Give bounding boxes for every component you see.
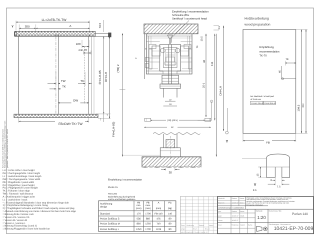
svg-text:Grün: Grün xyxy=(240,202,244,205)
svg-text:Y: Y xyxy=(254,183,257,187)
svg-text:536: 536 xyxy=(137,218,142,221)
svg-text:(mm): (mm) xyxy=(156,207,162,210)
svg-text:DW = Durchgangsweite / clear w: DW = Durchgangsweite / clear width xyxy=(3,178,41,181)
svg-text:350: 350 xyxy=(25,25,30,29)
svg-text:Perlan 140: Perlan 140 xyxy=(292,212,308,216)
svg-text:Empfehlung: Empfehlung xyxy=(259,46,274,49)
svg-text:FB = Flügelbreite / panel widt: FB = Flügelbreite / panel width xyxy=(3,181,35,184)
svg-text:Empfehlung / recommendation: Empfehlung / recommendation xyxy=(108,179,143,182)
svg-text:FH=LH-85: FH=LH-85 xyxy=(98,70,102,84)
svg-text:(mm): (mm) xyxy=(145,207,151,210)
svg-text:1700: 1700 xyxy=(145,228,151,231)
svg-text:Urheberschutz / confidential: Urheberschutz / confidential xyxy=(218,207,244,210)
svg-text:gestattet / refer to protectio: gestattet / refer to protection notice I… xyxy=(6,129,9,168)
svg-text:(kg): (kg) xyxy=(168,207,172,210)
svg-text:2.5: 2.5 xyxy=(218,25,221,29)
svg-text:(30) (43.5): (30) (43.5) xyxy=(167,119,177,122)
svg-text:LL = Laufschienenlänge / track: LL = Laufschienenlänge / track length xyxy=(3,175,42,178)
svg-text:Datum: Datum xyxy=(199,224,205,227)
svg-text:Zust.: Zust. xyxy=(181,224,185,227)
svg-text:N5 RT 10421-EP-70-009 / 16.03.: N5 RT 10421-EP-70-009 / 16.03.17 xyxy=(181,231,208,234)
svg-text:= Version M / version M: = Version M / version M xyxy=(3,219,27,222)
svg-text:gez.: gez. xyxy=(218,211,222,213)
svg-text:wood preparation: wood preparation xyxy=(245,22,271,26)
svg-text:1:1: 1:1 xyxy=(253,188,257,192)
svg-text:10421-EP-70-009: 10421-EP-70-009 xyxy=(274,226,314,232)
svg-text:30: 30 xyxy=(169,170,173,174)
svg-text:FB-140: FB-140 xyxy=(155,212,164,215)
svg-text:A = Auslösepunkt / trigger po: A = Auslösepunkt / trigger point xyxy=(3,195,36,198)
svg-text:104.5: 104.5 xyxy=(297,104,300,111)
svg-text:Gewicht: Gewicht xyxy=(218,197,225,200)
svg-text:Perlan SoftStop L: Perlan SoftStop L xyxy=(100,228,120,231)
svg-text:TW: TW xyxy=(61,79,66,83)
svg-text:7: 7 xyxy=(146,67,147,70)
svg-text:min.: min. xyxy=(137,204,142,207)
svg-text:min.70: min.70 xyxy=(79,48,88,52)
svg-text:TK: TK xyxy=(62,85,66,89)
svg-text:1) = Empfohlene Befestigung /: 1) = Empfohlene Befestigung / recom. fix… xyxy=(3,204,49,207)
svg-text:140: 140 xyxy=(168,212,173,215)
svg-text:Name: Name xyxy=(240,197,245,200)
svg-text:= Abstand erste Bohrung von Ka: = Abstand erste Bohrung von Kante / dist… xyxy=(3,210,77,213)
svg-text:(mm): (mm) xyxy=(136,207,142,210)
svg-text:1250: 1250 xyxy=(145,223,151,226)
svg-text:LL=2xFB-TK-TW: LL=2xFB-TK-TW xyxy=(42,18,68,22)
svg-text:TK = Türkante / door edge: TK = Türkante / door edge xyxy=(3,190,31,193)
svg-text:Holzbearbeitung: Holzbearbeitung xyxy=(245,16,269,20)
svg-text:FH=(LH-85): FH=(LH-85) xyxy=(112,122,116,137)
svg-text:LH = Lichte Höhe / clear heigh: LH = Lichte Höhe / clear height xyxy=(3,169,35,172)
svg-text:DW: DW xyxy=(73,99,78,103)
svg-text:Name: Name xyxy=(240,210,245,213)
svg-text:30: 30 xyxy=(145,47,147,50)
svg-text:TW = Türwand / wall distance: TW = Türwand / wall distance xyxy=(3,193,34,196)
svg-text:= Version XS / version XS: = Version XS / version XS xyxy=(3,216,30,219)
svg-text:A: A xyxy=(69,24,71,28)
svg-text:Senkkopf / countersunk head: Senkkopf / countersunk head xyxy=(172,18,207,21)
svg-text:Maßstab: Maßstab xyxy=(256,210,263,213)
svg-text:= Bohrung Ende / letztes Loch: = Bohrung Ende / letztes Loch xyxy=(3,213,35,216)
svg-text:12.05.17: 12.05.17 xyxy=(232,202,239,205)
svg-text:TK: TK xyxy=(285,58,289,61)
svg-text:TK-70: TK-70 xyxy=(259,55,267,58)
svg-text:PH-B 4.5: PH-B 4.5 xyxy=(108,186,118,189)
svg-text:* = Türanschlagmaß Bandseite: * = Türanschlagmaß Bandseite / door stop… xyxy=(3,201,70,204)
svg-text:FB=1200: FB=1200 xyxy=(108,193,118,196)
svg-text:7.5: 7.5 xyxy=(277,185,281,188)
svg-text:1:20: 1:20 xyxy=(257,215,266,220)
svg-text:1700: 1700 xyxy=(145,212,151,215)
svg-text:Blatt 1/1: Blatt 1/1 xyxy=(218,202,224,205)
svg-text:78.5: 78.5 xyxy=(98,22,102,28)
svg-text:= Bohrung Türanschlag 1) und 2: = Bohrung Türanschlag 1) und 2) xyxy=(3,225,37,228)
svg-text:Perlan SoftStop M: Perlan SoftStop M xyxy=(100,223,120,226)
svg-text:FG: FG xyxy=(168,202,171,205)
svg-text:DH = Durchgangshöhe / door hei: DH = Durchgangshöhe / door height xyxy=(3,172,41,175)
svg-text:FH: FH xyxy=(302,104,305,108)
svg-text:LL = Laufschiene / track: LL = Laufschiene / track xyxy=(3,198,29,201)
svg-text:25-1: 25-1 xyxy=(202,82,205,88)
svg-text:860: 860 xyxy=(146,218,151,221)
svg-text:(TB) 2: (TB) 2 xyxy=(116,64,120,72)
svg-text:Norm: Norm xyxy=(218,219,223,222)
svg-text:gepr.: gepr. xyxy=(218,215,222,217)
svg-text:FH = Flügelhöhe / panel height: FH = Flügelhöhe / panel height xyxy=(3,184,35,187)
svg-text:Urspr.: Urspr. xyxy=(181,228,186,231)
svg-text:Bodenführung durchgehend: Bodenführung durchgehend xyxy=(108,195,136,198)
svg-text:of front use: of front use xyxy=(251,98,262,101)
svg-text:Änderung: Änderung xyxy=(187,224,194,227)
svg-text:476: 476 xyxy=(156,218,161,221)
svg-text:Name: Name xyxy=(209,224,214,227)
svg-text:16.03.17: 16.03.17 xyxy=(232,219,239,222)
svg-text:43: 43 xyxy=(202,59,206,63)
svg-text:740: 740 xyxy=(156,223,161,226)
svg-text:bei Nachlauf / at wall pad: bei Nachlauf / at wall pad xyxy=(251,95,275,98)
svg-text:Datum: Datum xyxy=(232,197,238,200)
svg-text:Weiß: Weiß xyxy=(240,214,244,217)
svg-text:TK: TK xyxy=(80,79,84,83)
svg-text:Datum: Datum xyxy=(232,210,238,213)
svg-text:10.5: 10.5 xyxy=(200,36,203,42)
svg-text:max.: max. xyxy=(146,204,151,207)
svg-text:Benennung / title: Benennung / title xyxy=(269,210,282,213)
svg-text:DH=LH: DH=LH xyxy=(104,72,108,82)
svg-text:FG = Flügelgewicht / panel wei: FG = Flügelgewicht / panel weight xyxy=(3,187,38,190)
svg-text:860: 860 xyxy=(137,223,142,226)
svg-text:2) = Tragfähigkeit Schraube un: 2) = Tragfähigkeit Schraube und Dübel / … xyxy=(3,207,75,210)
svg-text:12Vx11 DIN-A5: 12Vx11 DIN-A5 xyxy=(251,102,263,105)
svg-text:= Version L / version L: = Version L / version L xyxy=(3,222,27,225)
svg-text:Ers. f.: Ers. f. xyxy=(193,228,198,231)
svg-text:FB: FB xyxy=(266,140,270,144)
svg-text:111: 111 xyxy=(210,61,214,66)
svg-text:Schraube Ø5x: Schraube Ø5x xyxy=(172,14,190,17)
svg-text:Standard: Standard xyxy=(100,212,111,215)
svg-text:10Vx9 DIN-A5: 10Vx9 DIN-A5 xyxy=(264,102,276,105)
svg-text:170: 170 xyxy=(137,212,142,215)
svg-text:DH=LH: DH=LH xyxy=(218,86,222,96)
svg-text:recommendation: recommendation xyxy=(259,51,280,54)
svg-text:Perlan SoftStop S: Perlan SoftStop S xyxy=(100,218,120,221)
svg-text:FB=DW+TK+TW: FB=DW+TK+TW xyxy=(59,122,83,126)
svg-text:Ers. d.: Ers. d. xyxy=(205,228,210,231)
svg-text:1106: 1106 xyxy=(156,228,162,231)
svg-text:design: design xyxy=(100,205,108,208)
svg-text:16.03.17: 16.03.17 xyxy=(232,214,239,217)
svg-text:100: 100 xyxy=(76,42,81,46)
svg-text:= Bohrung Fluggewicht / bore h: = Bohrung Fluggewicht / bore hole handle… xyxy=(3,228,50,231)
svg-text:1250: 1250 xyxy=(136,228,142,231)
